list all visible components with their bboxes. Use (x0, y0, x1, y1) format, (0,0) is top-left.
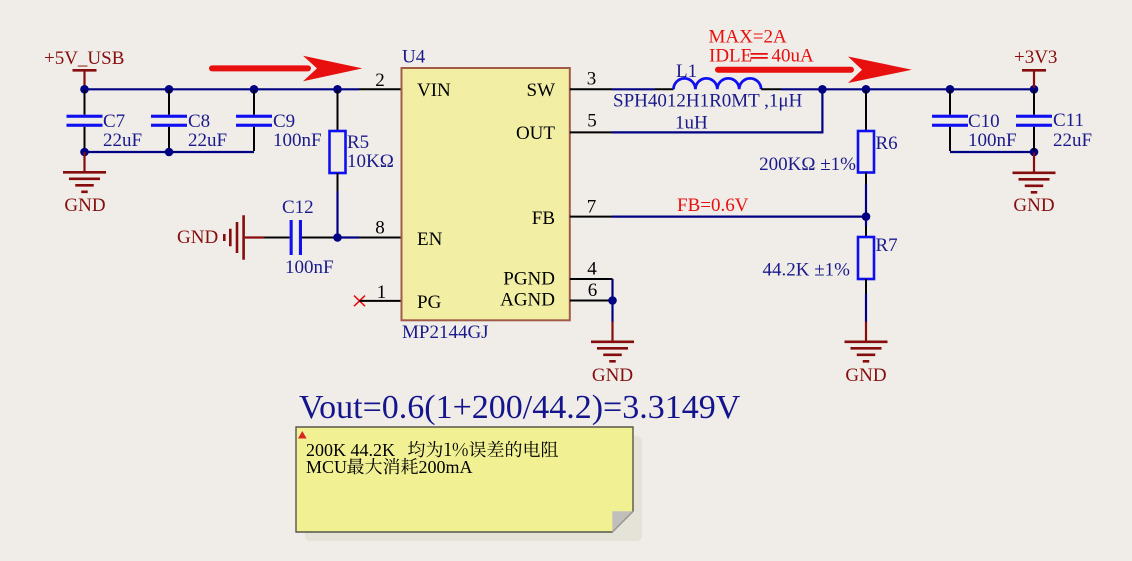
svg-text:U4: U4 (402, 47, 426, 68)
inductor L1 (674, 61, 762, 89)
svg-text:200KΩ ±1%: 200KΩ ±1% (759, 154, 856, 175)
svg-text:40uA: 40uA (772, 46, 815, 67)
node C10 top (946, 85, 955, 94)
node +5V at C7 (80, 85, 89, 94)
wire gnd rail (84, 151, 254, 153)
arrow output current (718, 57, 912, 84)
node C7 bottom (80, 148, 89, 157)
svg-text:GND: GND (64, 195, 105, 216)
svg-text:22uF: 22uF (1053, 130, 1092, 151)
resistor R6 (759, 90, 898, 216)
power port +3V3 (1014, 47, 1057, 88)
svg-text:8: 8 (375, 217, 385, 238)
svg-text:PG: PG (417, 292, 442, 313)
pin name OUT (516, 123, 555, 144)
IC U4 MP2144GJ body (402, 68, 570, 320)
svg-text:5: 5 (587, 111, 597, 132)
svg-text:C8: C8 (188, 111, 210, 132)
svg-text:C11: C11 (1053, 110, 1084, 131)
svg-text:22uF: 22uF (103, 130, 142, 151)
svg-text:GND: GND (592, 365, 633, 386)
svg-text:FB=0.6V: FB=0.6V (677, 195, 749, 216)
svg-text:SW: SW (527, 80, 556, 101)
svg-text:44.2K ±1%: 44.2K ±1% (763, 260, 851, 281)
label L1 value (675, 113, 708, 134)
svg-text:1: 1 (377, 282, 387, 303)
label FB=0.6V (677, 195, 749, 216)
svg-text:R7: R7 (876, 235, 898, 256)
svg-text:OUT: OUT (516, 123, 555, 144)
wire AGND down (611, 301, 613, 323)
wire L1 out (761, 88, 1034, 90)
pin name EN (417, 229, 443, 250)
svg-text:EN: EN (417, 229, 443, 250)
wire OUT loop (570, 89, 824, 132)
node C9 top (250, 85, 259, 94)
svg-text:IDLE: IDLE (709, 46, 752, 67)
wire PGND (570, 259, 613, 301)
capacitor C10 (932, 90, 1017, 151)
svg-text:GND: GND (1013, 195, 1054, 216)
capacitor C8 (151, 90, 227, 151)
svg-text:100nF: 100nF (968, 130, 1017, 151)
node C11 top (1030, 85, 1039, 94)
label L1 comment (613, 91, 803, 112)
svg-text:GND: GND (845, 365, 886, 386)
wire FB (570, 197, 866, 218)
svg-text:Vout=0.6(1+200/44.2)=3.3149V: Vout=0.6(1+200/44.2)=3.3149V (299, 389, 741, 426)
node C8 top (165, 85, 174, 94)
svg-text:+3V3: +3V3 (1014, 47, 1057, 68)
capacitor C9 (236, 90, 322, 151)
wire +5V rail (84, 88, 359, 90)
svg-text:6: 6 (588, 280, 598, 301)
svg-text:L1: L1 (676, 61, 697, 82)
node R5 top (333, 85, 342, 94)
note text line1 (306, 440, 558, 460)
node R6 top (862, 85, 871, 94)
svg-text:100nF: 100nF (273, 130, 322, 151)
ground GND5 (1013, 153, 1056, 217)
label U4 (402, 47, 426, 68)
note box (296, 427, 642, 541)
svg-text:7: 7 (587, 197, 597, 218)
svg-text:GND: GND (177, 227, 218, 248)
ground GND3 (591, 322, 634, 387)
pin name PG (417, 292, 442, 313)
label MAX=2A (709, 27, 788, 48)
svg-text:2: 2 (375, 70, 385, 91)
svg-text:C10: C10 (968, 111, 1000, 132)
arrow input current (212, 56, 362, 81)
node FB junction (862, 212, 871, 221)
pin name FB (532, 208, 555, 229)
wire AGND (570, 280, 613, 301)
power port +5V_USB (44, 48, 124, 88)
note text line2 (306, 457, 473, 477)
pin name AGND (500, 290, 555, 311)
label MP2144GJ (402, 322, 489, 343)
svg-text:4: 4 (587, 259, 597, 280)
ground port GND2 (177, 215, 264, 260)
pin name SW (527, 80, 556, 101)
no-ERC marker pin1 (354, 296, 365, 307)
svg-text:C7: C7 (103, 111, 125, 132)
wire EN (338, 236, 360, 238)
svg-text:FB: FB (532, 208, 555, 229)
wire pin8 lead (359, 217, 402, 238)
svg-text:C12: C12 (282, 197, 314, 218)
capacitor C7 (67, 90, 143, 151)
label IDLE=40uA (709, 46, 814, 67)
svg-text:100nF: 100nF (285, 257, 334, 278)
svg-text:PGND: PGND (503, 269, 555, 290)
ground GND4 (845, 322, 888, 387)
wire SW to L1 (612, 88, 674, 90)
svg-text:3: 3 (587, 69, 597, 90)
pin name PGND (503, 269, 555, 290)
node EN junction (333, 233, 342, 242)
capacitor C12 (264, 197, 338, 278)
svg-text:R6: R6 (876, 133, 898, 154)
resistor R5 (330, 90, 394, 238)
node C8 bottom (165, 148, 174, 157)
svg-text:10KΩ: 10KΩ (347, 151, 394, 172)
resistor R7 (763, 217, 898, 322)
svg-text:+5V_USB: +5V_USB (44, 48, 124, 69)
wire pin2 lead (359, 70, 402, 91)
node C11 bottom (1030, 148, 1039, 157)
pin name VIN (417, 80, 451, 101)
ground GND1 (63, 152, 106, 216)
svg-text:1uH: 1uH (675, 113, 708, 134)
label Vout formula (299, 389, 741, 426)
svg-text:MCU: MCU (306, 457, 347, 477)
wire pin1 lead (360, 282, 402, 303)
svg-text:R5: R5 (347, 132, 369, 153)
capacitor C11 (1016, 90, 1092, 151)
svg-text:MP2144GJ: MP2144GJ (402, 322, 489, 343)
svg-text:C9: C9 (273, 111, 295, 132)
svg-text:MAX=2A: MAX=2A (709, 27, 788, 48)
svg-text:22uF: 22uF (188, 130, 227, 151)
node AGND junction (608, 296, 617, 305)
wire out gnd rail (950, 151, 1034, 153)
svg-text:200mA: 200mA (419, 457, 473, 477)
wire pin3 lead (570, 69, 612, 90)
node OUT junction (818, 85, 827, 94)
svg-text:VIN: VIN (417, 80, 451, 101)
svg-text:SPH4012H1R0MT ,1μH: SPH4012H1R0MT ,1μH (613, 91, 803, 112)
svg-text:AGND: AGND (500, 290, 555, 311)
